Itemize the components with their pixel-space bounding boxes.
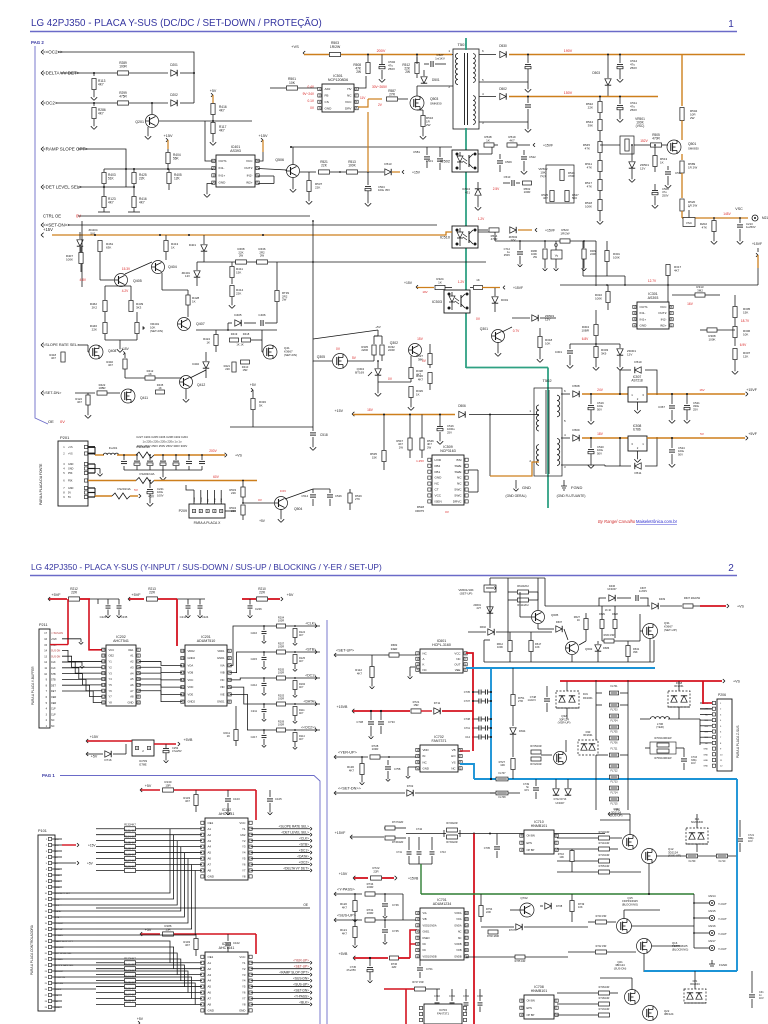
- capacitor C511a: [525, 104, 531, 106]
- svg-text:NC: NC: [435, 482, 440, 486]
- svg-text:<DELTA VY DET>: <DELTA VY DET>: [283, 866, 309, 870]
- wire T502 sec mid: [561, 437, 570, 439]
- svg-text:22K: 22K: [321, 164, 328, 168]
- transistor Q506: [287, 165, 300, 178]
- resistor R731: [365, 918, 375, 922]
- svg-text:47K: 47K: [702, 225, 707, 229]
- svg-text:R127/4K7: R127/4K7: [124, 859, 136, 863]
- regulator IC709: [132, 740, 154, 756]
- capacitor C522: [521, 156, 527, 158]
- resistor R410: [241, 360, 250, 364]
- capacitor C504: [365, 186, 371, 188]
- wire red drop IC201b: [176, 599, 178, 646]
- resistor R425: [132, 173, 136, 184]
- svg-text:CS: CS: [325, 100, 329, 104]
- capacitor C519: [588, 405, 594, 407]
- diode pair D31: [556, 691, 579, 708]
- wire IC509 stubs: [468, 469, 478, 471]
- resistor R754: [479, 906, 483, 917]
- svg-text:P5K: P5K: [214, 497, 216, 502]
- resistor R534: [241, 505, 245, 515]
- wire setup bottom rail: [484, 661, 654, 663]
- svg-text:C509: C509: [505, 160, 512, 164]
- capacitor C738: [368, 721, 374, 723]
- svg-text:15R: 15R: [243, 368, 248, 372]
- svg-text:C514: C514: [301, 494, 308, 498]
- svg-text:FL709: FL709: [689, 860, 696, 863]
- svg-text:OE1: OE1: [208, 821, 214, 825]
- svg-text:2W: 2W: [405, 70, 410, 74]
- svg-text:R737/22R: R737/22R: [392, 821, 403, 824]
- svg-text:GND: GND: [239, 1009, 245, 1013]
- svg-text:22R: 22R: [373, 869, 378, 873]
- svg-text:OE2: OE2: [109, 654, 115, 658]
- svg-text:2K2: 2K2: [92, 305, 98, 309]
- svg-text:C102: C102: [233, 941, 240, 945]
- svg-text:25V: 25V: [447, 430, 452, 434]
- resistor R304b: [594, 325, 598, 336]
- svg-text:FL201: FL201: [109, 446, 118, 450]
- svg-text:IC510: IC510: [440, 235, 450, 239]
- wire 15VF out: [647, 393, 745, 395]
- svg-text:Y5: Y5: [242, 985, 246, 989]
- capacitor C217: [263, 730, 265, 734]
- svg-text:4K7: 4K7: [342, 931, 348, 935]
- power +5VF rail2: [128, 597, 130, 599]
- svg-text:VODA: VODA: [454, 912, 461, 915]
- resistor R209: [277, 728, 286, 732]
- svg-text:+VS: +VS: [235, 454, 242, 458]
- svg-text:C224: C224: [202, 615, 209, 619]
- svg-text:VDD1: VDD1: [217, 649, 225, 653]
- svg-text:IN2-: IN2-: [247, 173, 253, 177]
- svg-text:OER: OER: [51, 702, 56, 705]
- svg-text:+5V: +5V: [375, 325, 380, 329]
- svg-text:RAMP SLOP OPT: RAMP SLOP OPT: [55, 940, 73, 943]
- resistor R533: [241, 487, 245, 497]
- svg-text:18.7V: 18.7V: [741, 319, 750, 323]
- power +15VF row287: [503, 286, 505, 288]
- node <DELTA VV DET>: [41, 71, 44, 73]
- svg-text:11V: 11V: [360, 96, 366, 100]
- capacitors C716 C734a C734 C736: [435, 1002, 440, 1004]
- transistor Q407: [178, 318, 191, 331]
- wire red to VB: [472, 711, 474, 751]
- svg-text:OE1: OE1: [208, 955, 214, 959]
- svg-text:+15VF: +15VF: [335, 831, 346, 835]
- svg-text:DATA: DATA: [55, 910, 61, 913]
- resistor R516: [421, 116, 425, 127]
- svg-text:+5VF: +5VF: [748, 432, 757, 436]
- node <<OC2>>: [315, 728, 317, 730]
- diode D634: [510, 728, 516, 734]
- svg-text:FB2: FB2: [435, 464, 441, 468]
- transistor Q602: [566, 642, 579, 655]
- svg-text:FL707: FL707: [498, 772, 506, 775]
- diode D707: [516, 924, 522, 930]
- wire SET-DN long row: [68, 224, 437, 226]
- svg-text:VCC: VCC: [454, 651, 460, 655]
- resistor R547: [408, 438, 412, 450]
- node SET-DN arrow2: [334, 791, 336, 793]
- svg-text:SUS-DN: SUS-DN: [51, 650, 60, 653]
- capacitor C512a: [525, 64, 531, 66]
- svg-text:190V: 190V: [564, 49, 573, 53]
- svg-text:D31: D31: [583, 692, 588, 696]
- resistor R212: [69, 597, 80, 601]
- resistor R202: [712, 221, 716, 232]
- svg-text:<STB>: <STB>: [305, 648, 316, 652]
- capacitor C511: [617, 105, 623, 107]
- svg-text:AS393: AS393: [648, 296, 659, 300]
- svg-text:4K7: 4K7: [543, 196, 548, 200]
- svg-text:A7: A7: [208, 863, 212, 867]
- svg-text:0.7V: 0.7V: [513, 329, 520, 333]
- svg-text:152V: 152V: [640, 139, 648, 143]
- svg-text:<OC2>: <OC2>: [299, 860, 309, 864]
- svg-text:M214: M214: [709, 894, 716, 898]
- svg-text:C227 C204 C205 C206 C208 C202: C227 C204 C205 C206 C208 C202 C204: [136, 435, 188, 439]
- svg-text:1KV: 1KV: [691, 762, 696, 765]
- svg-text:10K: 10K: [500, 763, 505, 767]
- bead ladder FL715: [610, 797, 619, 801]
- svg-text:A5: A5: [208, 985, 212, 989]
- svg-text:100K: 100K: [708, 337, 715, 341]
- capacitor C510: [511, 180, 513, 186]
- power +5V rail3: [281, 597, 283, 599]
- power +5V out: [139, 494, 141, 496]
- svg-text:(GND GERAL): (GND GERAL): [506, 494, 527, 498]
- svg-text:15K: 15K: [236, 270, 241, 274]
- svg-text:<SUS-DN>: <SUS-DN>: [293, 976, 309, 980]
- resistor R737: [385, 826, 395, 830]
- capacitor C518: [310, 432, 316, 434]
- capacitor C516: [437, 426, 443, 428]
- svg-text:D405: D405: [234, 313, 242, 317]
- svg-text:22K: 22K: [315, 185, 320, 189]
- svg-text:VIE: VIE: [220, 692, 225, 696]
- resistor R418b: [61, 352, 65, 362]
- svg-text:C522: C522: [529, 155, 536, 159]
- svg-text:Maiseletrônica.com.br: Maiseletrônica.com.br: [636, 519, 678, 524]
- resistor R525: [550, 191, 554, 202]
- resistor R740: [596, 920, 607, 924]
- svg-text:UF4007: UF4007: [607, 587, 617, 591]
- wire 5VF out: [647, 437, 745, 439]
- svg-text:10K: 10K: [743, 332, 748, 336]
- svg-text:AS7218: AS7218: [631, 379, 643, 383]
- resistor rows IC102: [125, 827, 136, 831]
- fuse FS202: [136, 452, 154, 458]
- svg-text:Q504: Q504: [294, 507, 302, 511]
- capacitor C252: [163, 748, 169, 750]
- resistors R729 R730 pair: [443, 830, 445, 837]
- svg-text:4K7: 4K7: [418, 377, 424, 381]
- svg-text:47u/25V: 47u/25V: [346, 968, 356, 972]
- svg-text:VOA: VOA: [456, 918, 462, 921]
- beads FL709 FL710: [687, 854, 698, 858]
- resistor R424: [214, 335, 218, 346]
- svg-text:VIC: VIC: [220, 678, 225, 682]
- svg-text:5V1: 5V1: [90, 231, 96, 235]
- resistor R133: [194, 795, 198, 806]
- bead FL708: [496, 791, 508, 795]
- svg-text:5V: 5V: [68, 496, 71, 499]
- connector M213: [752, 215, 758, 221]
- svg-text:250V: 250V: [630, 108, 637, 112]
- svg-text:Q301: Q301: [480, 327, 488, 331]
- node Y-PASS arrow: [334, 892, 336, 894]
- svg-text:C226: C226: [255, 607, 262, 611]
- svg-text:1.2V: 1.2V: [458, 280, 465, 284]
- svg-text:R135/4K7: R135/4K7: [124, 841, 136, 845]
- zener ZD401: [194, 271, 200, 277]
- svg-text:NC: NC: [456, 657, 460, 661]
- svg-text:4K7: 4K7: [51, 356, 56, 360]
- resistor R501: [287, 86, 298, 90]
- svg-text:Y7: Y7: [109, 695, 113, 699]
- svg-text:C226: C226: [100, 615, 107, 619]
- svg-text:4K7: 4K7: [299, 712, 304, 715]
- wire P211 fan: [62, 650, 102, 661]
- svg-text:+15V: +15V: [259, 134, 268, 138]
- svg-text:475R: 475R: [119, 95, 127, 99]
- svg-text:Q503: Q503: [430, 97, 438, 101]
- svg-text:9V~24V: 9V~24V: [303, 92, 315, 96]
- svg-text:OUT2: OUT2: [244, 166, 253, 170]
- power +5V ic102: [140, 788, 142, 790]
- wire Q501 source: [681, 154, 683, 160]
- capacitor C367: [669, 405, 675, 407]
- svg-text:4K7: 4K7: [98, 112, 104, 116]
- svg-text:<SET-DN>: <SET-DN>: [294, 988, 310, 992]
- svg-text:12.7V: 12.7V: [648, 279, 657, 283]
- optocoupler IC503: [444, 290, 470, 313]
- svg-text:SWC: SWC: [454, 488, 462, 492]
- svg-text:OP BP: OP BP: [527, 1013, 535, 1017]
- svg-text:A1: A1: [208, 827, 212, 831]
- diode D607: [556, 626, 562, 632]
- resistor R504: [680, 108, 684, 121]
- svg-text:Q411: Q411: [140, 396, 148, 400]
- svg-text:VOD1GNDB: VOD1GNDB: [423, 955, 437, 958]
- svg-text:4V7: 4V7: [476, 606, 481, 610]
- svg-text:1n/63V: 1n/63V: [639, 589, 647, 593]
- svg-text:HCPL-3160: HCPL-3160: [432, 643, 451, 647]
- svg-text:R128/4K7: R128/4K7: [124, 847, 136, 851]
- diode pair D11: [686, 828, 708, 844]
- transistor Q201: [146, 115, 159, 128]
- svg-text:VSC: VSC: [686, 221, 693, 225]
- svg-text:Y3: Y3: [242, 845, 246, 849]
- svg-text:ON BN: ON BN: [527, 999, 535, 1003]
- svg-text:OUT: OUT: [454, 662, 460, 666]
- svg-text:22K: 22K: [92, 327, 97, 331]
- resistor R468: [236, 260, 247, 264]
- wire row <CLK>: [230, 626, 320, 665]
- svg-text:P201: P201: [60, 435, 70, 440]
- svg-text:4K7: 4K7: [299, 686, 304, 689]
- svg-text:2W: 2W: [239, 254, 244, 258]
- svg-text:D716: D716: [105, 758, 112, 762]
- power +5V IC709: [86, 752, 88, 754]
- svg-text:10BR: 10BR: [99, 386, 106, 390]
- svg-text:SWC: SWC: [454, 494, 462, 498]
- svg-text:+5V: +5V: [148, 495, 155, 499]
- svg-text:38K: 38K: [418, 357, 423, 361]
- capacitor C521: [684, 405, 690, 407]
- wire T501 secondary mid: [479, 96, 496, 98]
- svg-text:100R: 100R: [278, 645, 284, 649]
- svg-text:R725/16R: R725/16R: [530, 745, 541, 748]
- svg-text:4K7: 4K7: [299, 634, 304, 637]
- svg-text:NC: NC: [423, 668, 427, 672]
- resistor R125: [293, 655, 297, 664]
- capacitor C512: [617, 64, 623, 66]
- bead FL707: [496, 777, 508, 781]
- svg-text:C301: C301: [555, 350, 563, 354]
- resistor R301: [605, 251, 609, 262]
- wire VS red right: [560, 680, 722, 682]
- svg-text:VIA: VIA: [220, 663, 225, 667]
- ic IC102: [205, 818, 248, 880]
- svg-text:1R/2W: 1R/2W: [560, 231, 569, 235]
- svg-text:R630 15R: R630 15R: [604, 634, 615, 637]
- capacitor C607: [635, 595, 637, 601]
- svg-text:D530: D530: [499, 44, 507, 48]
- svg-text:470R: 470R: [652, 137, 660, 141]
- svg-text:UF4007: UF4007: [556, 802, 566, 805]
- svg-text:OUT1: OUT1: [640, 305, 649, 309]
- svg-text:1K: 1K: [577, 618, 580, 622]
- resistor R213: [147, 597, 158, 601]
- svg-text:HO: HO: [451, 754, 456, 758]
- svg-text:A4: A4: [208, 845, 212, 849]
- svg-text:ADUM7510: ADUM7510: [197, 639, 216, 643]
- resistor R124: [293, 629, 297, 638]
- svg-text:51K: 51K: [108, 177, 115, 181]
- svg-text:12V: 12V: [627, 352, 632, 356]
- svg-text:GND: GND: [208, 1009, 214, 1013]
- resistor R548: [484, 143, 494, 147]
- svg-text:ADUM1234: ADUM1234: [433, 902, 452, 906]
- resistor R422: [97, 391, 107, 395]
- resistor R545: [598, 142, 602, 153]
- resistors R629 R628: [600, 620, 604, 629]
- svg-text:(BLOCKING): (BLOCKING): [672, 947, 688, 951]
- wire VSC node: [682, 217, 748, 219]
- svg-text:2: 2: [728, 563, 734, 574]
- resistor R514: [478, 229, 488, 231]
- svg-text:P101: P101: [38, 829, 47, 833]
- svg-text:U62: U62: [240, 833, 246, 837]
- resistor R407: [79, 253, 83, 264]
- resistor R130: [163, 788, 174, 792]
- node <CLK>: [315, 624, 317, 626]
- svg-text:CLP: CLP: [51, 713, 56, 716]
- optocoupler IC510: [452, 226, 478, 248]
- svg-text:22K: 22K: [236, 291, 241, 295]
- svg-text:(SET-DN): (SET-DN): [284, 353, 297, 357]
- svg-text:VCC: VCC: [239, 955, 245, 959]
- svg-text:R729/22R: R729/22R: [446, 822, 457, 825]
- wire red bottom left: [405, 989, 407, 1024]
- diode D511 loop: [620, 438, 631, 466]
- ic IC703: [424, 1004, 462, 1024]
- svg-text:Y1: Y1: [109, 660, 113, 664]
- ground FGND2: [711, 960, 713, 964]
- svg-text:Y7: Y7: [242, 997, 246, 1001]
- svg-text:150V: 150V: [564, 91, 573, 95]
- wire blue IC601 out: [466, 667, 655, 669]
- svg-text:GND: GND: [640, 323, 648, 327]
- svg-text:A6: A6: [208, 857, 212, 861]
- resistor R511: [598, 161, 602, 172]
- svg-text:1K: 1K: [171, 245, 175, 249]
- svg-text:0.6V: 0.6V: [280, 489, 286, 493]
- capacitor bank: [123, 455, 125, 460]
- svg-text:+15VF: +15VF: [746, 388, 757, 392]
- svg-text:IN1+: IN1+: [219, 173, 226, 177]
- svg-text:100K: 100K: [595, 296, 602, 300]
- svg-text:19V: 19V: [422, 290, 427, 294]
- svg-text:+5V: +5V: [145, 784, 152, 788]
- svg-text:D513: D513: [384, 162, 392, 166]
- wire T501 secondary top: [479, 54, 496, 56]
- svg-text:+5V: +5V: [145, 928, 152, 932]
- diodes D712 D713: [553, 789, 559, 795]
- resistor R317: [666, 265, 670, 276]
- diode D201: [171, 70, 177, 76]
- svg-text:(Vy): (Vy): [540, 174, 545, 178]
- wire setup top rail: [544, 578, 546, 606]
- resistor R535: [383, 415, 385, 451]
- svg-text:IN1-: IN1-: [219, 166, 225, 170]
- resistors R725 R722y: [531, 750, 541, 754]
- svg-text:IN: IN: [423, 754, 426, 758]
- svg-text:100R: 100R: [119, 65, 127, 69]
- svg-text:+VS: +VS: [737, 605, 744, 609]
- svg-text:C211: C211: [251, 709, 258, 713]
- diode D702: [407, 790, 413, 796]
- svg-text:T-PASS: T-PASS: [55, 958, 63, 961]
- svg-text:100R: 100R: [278, 619, 284, 623]
- svg-text:STB: STB: [51, 673, 56, 676]
- svg-text:300V 250V 250V 250V 250V 300V: 300V 250V 250V 250V 250V 300V 300V: [137, 444, 188, 448]
- resistors R703 R753: [650, 742, 676, 754]
- wire T502 primary: [535, 414, 539, 416]
- wire sec3: [561, 464, 605, 466]
- svg-text:IN2-: IN2-: [661, 317, 667, 321]
- svg-text:GND2: GND2: [188, 700, 196, 704]
- svg-text:18V: 18V: [367, 408, 374, 412]
- svg-text:R108/4K7: R108/4K7: [124, 998, 136, 1002]
- ic IC509: [432, 455, 464, 505]
- svg-text:12K: 12K: [174, 177, 181, 181]
- svg-text:A5: A5: [130, 677, 134, 681]
- svg-text:C501: C501: [426, 159, 434, 163]
- svg-text:NC: NC: [457, 482, 462, 486]
- svg-text:C216: C216: [251, 631, 258, 635]
- wire DELTA VV DET row: [60, 72, 117, 74]
- svg-text:145V: 145V: [723, 212, 731, 216]
- power +15VF opto2: [535, 228, 537, 230]
- svg-text:E786: E786: [633, 428, 641, 432]
- svg-text:A7: A7: [130, 689, 134, 693]
- capacitor C749: [533, 787, 539, 789]
- svg-text:A7: A7: [208, 997, 212, 1001]
- svg-text:VDD2: VDD2: [188, 649, 196, 653]
